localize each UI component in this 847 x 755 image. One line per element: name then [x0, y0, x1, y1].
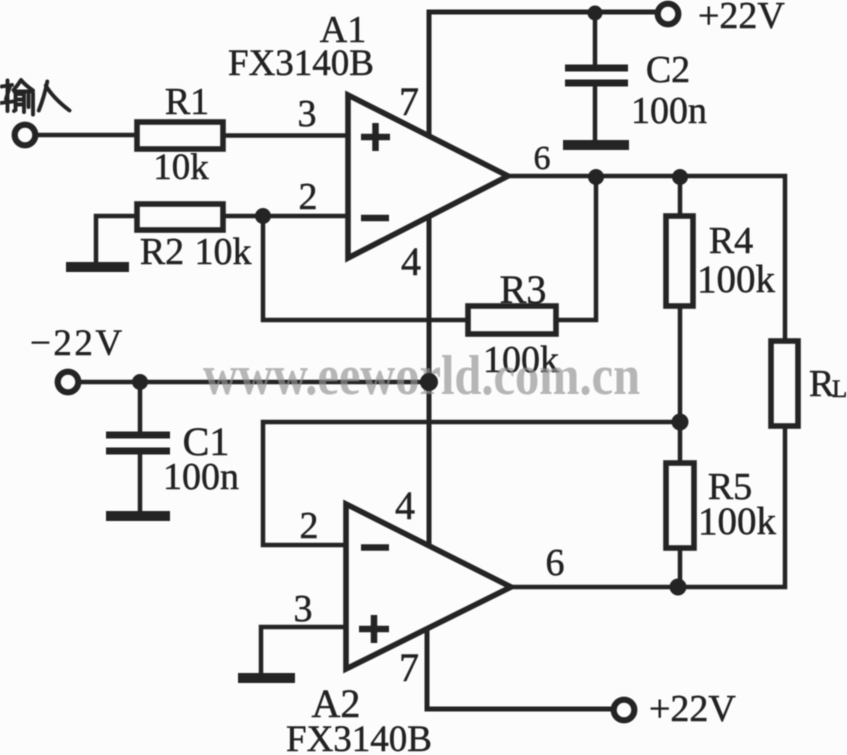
- wire pin7 to +22V rail: [429, 12, 658, 136]
- svg-text:FX3140B: FX3140B: [286, 719, 432, 755]
- svg-text:2: 2: [299, 176, 318, 218]
- ground (R2): [66, 262, 129, 272]
- wire A1 output rail: [508, 176, 785, 343]
- minus sign (A2): [361, 544, 389, 551]
- ground (A2 pin3): [238, 673, 295, 683]
- svg-text:100k: 100k: [697, 258, 776, 301]
- svg-text:L: L: [832, 376, 847, 403]
- svg-text:100n: 100n: [631, 90, 707, 132]
- svg-text:R1: R1: [165, 81, 209, 123]
- node junction -22V/C1: [132, 374, 148, 390]
- wire C2 bottom stem: [593, 86, 598, 141]
- svg-text:C2: C2: [646, 49, 690, 91]
- wire input to R1: [37, 133, 140, 138]
- plus sign (A1): [361, 123, 390, 151]
- wire C1 bottom stem: [138, 454, 143, 512]
- wire R4 bottom stem: [678, 306, 683, 422]
- node 输入 (input label): [1, 80, 70, 115]
- wire feedback right leg: [556, 177, 596, 320]
- svg-text:R3: R3: [500, 267, 547, 312]
- resistor R4: [666, 216, 693, 306]
- svg-text:−22V: −22V: [30, 323, 125, 364]
- wire R5 top stem: [678, 422, 683, 465]
- svg-text:+22V: +22V: [649, 688, 736, 730]
- terminal +22V bottom: [614, 700, 635, 721]
- svg-text:FX3140B: FX3140B: [228, 43, 374, 84]
- node junction mid rail/R4/R5: [672, 414, 689, 431]
- node junction R2/feedback: [255, 208, 271, 224]
- resistor R2: [137, 204, 223, 230]
- svg-text:+22V: +22V: [698, 0, 785, 37]
- wire feedback left leg: [263, 216, 470, 320]
- resistor R3: [468, 306, 556, 334]
- svg-text:3: 3: [294, 588, 313, 630]
- node junction A2 output/R5: [670, 579, 687, 596]
- svg-text:4: 4: [401, 239, 421, 284]
- wire R1 to pin3: [223, 133, 348, 138]
- wire V- supply line pins 4: [427, 217, 432, 546]
- svg-text:R4: R4: [709, 220, 753, 262]
- svg-text:100k: 100k: [698, 500, 777, 543]
- svg-text:100n: 100n: [163, 456, 239, 498]
- resistor R1: [137, 122, 223, 149]
- wire R2 to pin2: [223, 214, 348, 219]
- node junction output/R3: [588, 169, 604, 185]
- wire A2 pin3 to ground: [261, 627, 348, 674]
- capacitor C1: [106, 435, 170, 451]
- svg-text:2: 2: [300, 505, 319, 547]
- wire -22V rail: [80, 380, 429, 385]
- svg-text:4: 4: [395, 483, 415, 528]
- svg-text:6: 6: [546, 542, 565, 584]
- terminal -22V: [58, 372, 79, 393]
- wire C1 top stem: [138, 382, 143, 434]
- svg-text:7: 7: [399, 79, 419, 124]
- wire A2 pin7 to +22V bottom: [427, 630, 613, 709]
- plus sign (A2): [359, 615, 389, 643]
- op-amp A1: [348, 95, 508, 258]
- terminal +22V top: [658, 4, 679, 25]
- op-amp A2: [346, 504, 511, 669]
- wire R4 top stem: [678, 177, 683, 218]
- node junction -22V/pin4 line (top copy): [420, 373, 438, 391]
- wire C2 top stem: [593, 13, 598, 66]
- wire RL bottom to A2 output: [511, 424, 785, 587]
- svg-text:www.eeworld.com.cn: www.eeworld.com.cn: [203, 345, 640, 407]
- svg-text:10k: 10k: [153, 147, 209, 188]
- svg-text:3: 3: [298, 93, 317, 135]
- wire mid rail R4/R5 to A2 pin2: [263, 422, 680, 545]
- ground (C1): [106, 511, 170, 521]
- capacitor C2: [565, 68, 628, 83]
- resistor R5: [666, 463, 694, 548]
- minus sign (A1): [361, 215, 389, 222]
- ground (C2): [563, 140, 629, 150]
- input terminal: [15, 125, 36, 146]
- node junction -22V/pin4 line: [421, 374, 438, 391]
- wire R2 left to ground: [96, 216, 139, 266]
- svg-text:R2: R2: [140, 231, 184, 273]
- resistor RL: [771, 341, 798, 426]
- node junction top rail / C2: [588, 6, 603, 21]
- svg-text:7: 7: [399, 645, 419, 690]
- node junction output/R4: [672, 169, 688, 185]
- svg-text:6: 6: [534, 140, 551, 177]
- svg-text:10k: 10k: [195, 231, 252, 273]
- wire R5 bottom stem: [678, 548, 683, 587]
